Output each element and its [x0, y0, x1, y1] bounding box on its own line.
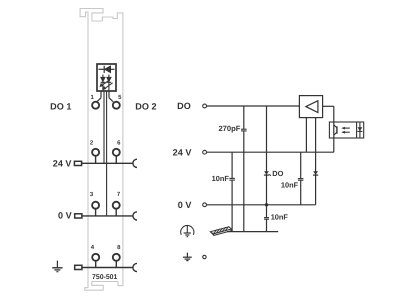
- svg-text:10nF: 10nF: [271, 213, 289, 222]
- svg-text:8: 8: [117, 244, 121, 251]
- svg-text:7: 7: [117, 191, 121, 198]
- svg-text:0 V: 0 V: [178, 200, 192, 210]
- svg-text:750-501: 750-501: [92, 274, 117, 281]
- svg-text:0 V: 0 V: [58, 211, 72, 221]
- svg-text:2: 2: [90, 140, 94, 147]
- svg-text:3: 3: [90, 191, 94, 198]
- svg-text:4: 4: [91, 244, 95, 251]
- svg-text:10nF: 10nF: [212, 174, 230, 183]
- svg-text:270pF: 270pF: [218, 124, 240, 133]
- svg-text:DO: DO: [177, 101, 191, 111]
- svg-text:DO: DO: [272, 169, 283, 178]
- svg-text:10nF: 10nF: [281, 181, 299, 190]
- svg-text:1: 1: [91, 94, 95, 101]
- svg-text:24 V: 24 V: [173, 147, 192, 157]
- svg-text:DO 1: DO 1: [50, 101, 71, 111]
- svg-text:24 V: 24 V: [53, 158, 72, 168]
- svg-text:5: 5: [118, 94, 122, 101]
- svg-text:DO 2: DO 2: [135, 101, 156, 111]
- svg-text:6: 6: [117, 140, 121, 147]
